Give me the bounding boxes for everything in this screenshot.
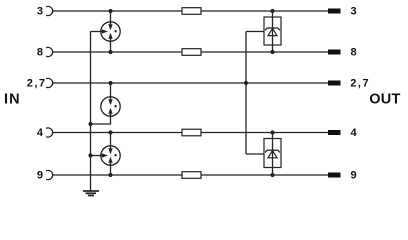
resistor row 4	[182, 129, 201, 136]
node row 4 / F3 top	[108, 130, 112, 134]
resistor row 3	[182, 8, 201, 15]
node PE bus / F3 left electrode	[88, 153, 92, 157]
node row 9 / U2 bottom	[270, 173, 274, 177]
gas discharge arrester F3 (rows 4-9)	[101, 133, 120, 176]
wire stub suppressor U1 left	[246, 31, 265, 33]
wire row 2,7	[53, 82, 328, 84]
wire stub gas arrester F3 left electrode	[91, 155, 103, 157]
node row 4 / U2 top	[270, 130, 274, 134]
terminal block 9 (right)	[328, 173, 341, 178]
wire row 9 left segment	[53, 174, 182, 176]
node row 2,7 / F2 top	[108, 81, 112, 85]
svg-text:9: 9	[351, 170, 357, 182]
wire row 4 right segment	[201, 132, 328, 134]
wire row 8 left segment	[53, 51, 182, 53]
svg-text:4: 4	[37, 127, 44, 139]
wire stub gas arrester F1 left electrode	[91, 31, 103, 33]
ground symbol	[83, 191, 99, 196]
resistor row 8	[182, 49, 201, 56]
svg-text:4: 4	[351, 127, 358, 139]
suppressor diode U1 (rows 3-8)	[264, 11, 281, 52]
node row 3 / U1 top	[270, 9, 274, 13]
svg-text:3: 3	[37, 6, 43, 18]
node row 8 / U1 bottom	[270, 50, 274, 54]
svg-text:2,7: 2,7	[27, 77, 47, 89]
svg-text:OUT: OUT	[369, 91, 400, 107]
PE bus vertical wire	[90, 32, 92, 191]
terminal block 2,7 (right)	[328, 81, 341, 86]
node PE bus / F2 jog	[88, 122, 92, 126]
terminal block 3 (right)	[328, 9, 341, 14]
terminal 9 arc (left)	[46, 170, 53, 179]
terminal 3 arc (left)	[46, 6, 53, 15]
wire row 3 right segment	[201, 10, 328, 12]
svg-text:IN: IN	[4, 92, 21, 108]
reference bus vertical wire (right)	[245, 32, 247, 155]
terminal 4 arc (left)	[46, 128, 53, 137]
suppressor diode U2 (rows 4-9)	[264, 133, 281, 176]
svg-text:3: 3	[351, 6, 357, 18]
wire stub suppressor U2 left	[246, 153, 265, 155]
wire row 9 right segment	[201, 174, 328, 176]
resistor row 9	[182, 172, 201, 179]
node row 9 / F3 bottom	[108, 173, 112, 177]
terminal block 4 (right)	[328, 130, 341, 135]
terminal 8 arc (left)	[46, 47, 53, 56]
gas discharge arrester F1 (rows 3-8)	[101, 11, 120, 52]
gas discharge arrester F2 (row 2,7 to PE)	[101, 83, 120, 116]
svg-text:8: 8	[351, 47, 357, 59]
wire jog gas arrester F2 bottom to PE bus	[91, 114, 111, 124]
svg-text:2,7: 2,7	[350, 77, 370, 89]
node row 2,7 / reference bus	[244, 81, 248, 85]
wire row 3 left segment	[53, 10, 182, 12]
svg-text:8: 8	[37, 47, 43, 59]
svg-text:9: 9	[37, 170, 43, 182]
terminal block 8 (right)	[328, 50, 341, 55]
terminal 2,7 arc (left)	[46, 78, 53, 87]
wire row 8 right segment	[201, 51, 328, 53]
node row 8 / F1 bottom	[108, 50, 112, 54]
node row 3 / F1 top	[108, 9, 112, 13]
wire row 4 left segment	[53, 132, 182, 134]
